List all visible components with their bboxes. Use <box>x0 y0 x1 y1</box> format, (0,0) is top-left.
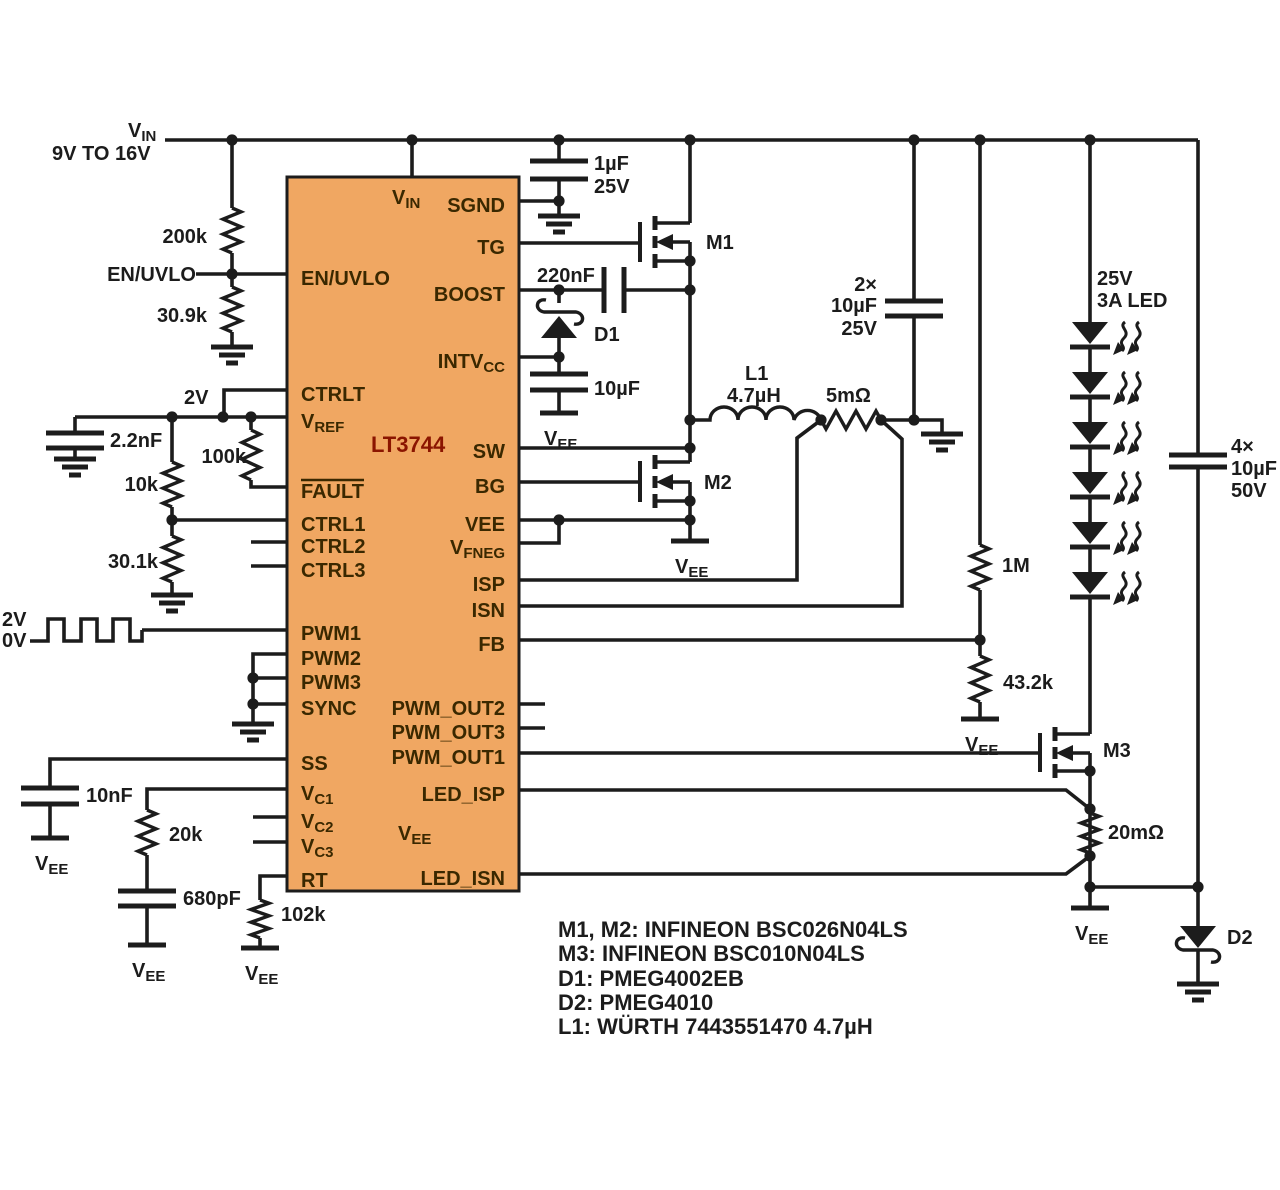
wire BOOST <box>519 288 604 292</box>
resistor 5mOhm sense <box>821 411 881 429</box>
pin label FB <box>478 634 505 656</box>
svg-text:D1: D1 <box>594 324 620 346</box>
op-amp U1 LT3744 body <box>287 177 519 891</box>
pin label VREF <box>301 411 344 436</box>
wire PWM3 <box>253 676 287 680</box>
svg-text:10k: 10k <box>125 474 159 496</box>
node VIN junction at LED string <box>1084 134 1095 145</box>
svg-text:25V: 25V <box>841 318 877 340</box>
label 20k <box>169 824 203 846</box>
svg-text:3A LED: 3A LED <box>1097 290 1167 312</box>
capacitor 2.2nF <box>46 433 104 448</box>
wire BOOST to D1 <box>557 290 561 303</box>
node VEE wire junction at M2 <box>684 514 695 525</box>
label LT3744 <box>371 432 446 457</box>
pin label BOOST <box>434 284 505 306</box>
svg-text:30.9k: 30.9k <box>157 305 208 327</box>
svg-text:220nF: 220nF <box>537 265 595 287</box>
svg-text:CTRL2: CTRL2 <box>301 536 365 558</box>
diode D1 schottky <box>537 300 582 338</box>
svg-text:1M: 1M <box>1002 555 1030 577</box>
svg-text:FAULT: FAULT <box>301 481 364 503</box>
pin label TG <box>477 237 505 259</box>
capacitor 220nF <box>604 267 624 313</box>
pin label LED_ISN <box>421 868 505 890</box>
svg-text:20k: 20k <box>169 824 203 846</box>
power VEE under 43.2k <box>961 719 999 759</box>
wire VIN to 200k <box>230 140 234 208</box>
pin label PWM1 <box>301 623 361 645</box>
node FB junction <box>974 634 985 645</box>
transistor Q M1 <box>640 216 690 268</box>
wire CTRL1 <box>172 518 287 522</box>
svg-text:PWM3: PWM3 <box>301 672 361 694</box>
note component list <box>558 917 908 1039</box>
wire LED1 to LED2 <box>1088 347 1092 372</box>
label 20mOhm <box>1108 822 1164 844</box>
pin label PWM_OUT2 <box>392 698 505 720</box>
wire to ground at 5mOhm <box>914 420 942 434</box>
wire VREF <box>75 415 287 419</box>
wire VC1 <box>147 789 287 810</box>
pin label PWM_OUT1 <box>392 747 505 769</box>
wire LED return to D2 <box>1090 885 1198 889</box>
svg-text:LT3744: LT3744 <box>371 432 446 457</box>
resistor 20mOhm <box>1081 813 1099 853</box>
label 10uF <box>594 378 640 400</box>
wire 10nF to VEE <box>48 804 52 838</box>
capacitor 680pF <box>118 891 176 906</box>
capacitor 10nF <box>21 788 79 804</box>
node VIN junction at M1 drain <box>684 134 695 145</box>
svg-text:ISP: ISP <box>473 574 505 596</box>
wire 30.1k to ground <box>170 582 174 595</box>
svg-text:M1: M1 <box>706 232 734 254</box>
svg-text:25V: 25V <box>594 176 630 198</box>
svg-text:SW: SW <box>473 441 505 463</box>
ground at 5mOhm <box>921 434 963 450</box>
wire INTVCC <box>519 355 559 359</box>
wire 200k to EN/UVLO node <box>230 253 234 274</box>
wire 10uF to VEE <box>557 390 561 413</box>
svg-text:D2: PMEG4010: D2: PMEG4010 <box>558 990 713 1015</box>
wire 10k to CTRL1 <box>170 507 174 536</box>
svg-text:100k: 100k <box>202 446 247 468</box>
wire RT <box>260 876 287 900</box>
node EN/UVLO junction <box>226 268 237 279</box>
resistor 10k <box>163 462 181 507</box>
svg-text:SYNC: SYNC <box>301 698 357 720</box>
wire VREF to 2.2nF <box>73 417 77 433</box>
svg-text:SS: SS <box>301 753 328 775</box>
svg-text:200k: 200k <box>163 226 208 248</box>
wire 100k to FAULT <box>251 480 287 487</box>
pin label SW <box>473 441 505 463</box>
capacitor 10uF <box>530 374 588 390</box>
label 100k <box>202 446 247 468</box>
svg-text:CTRL3: CTRL3 <box>301 560 365 582</box>
svg-text:VEE: VEE <box>465 514 505 536</box>
svg-text:102k: 102k <box>281 904 326 926</box>
wire SGND <box>519 199 559 203</box>
pin label BG <box>475 476 505 498</box>
label D1 <box>594 324 620 346</box>
pin label SYNC <box>301 698 357 720</box>
svg-text:M2: M2 <box>704 472 732 494</box>
wire M1 source down to SW node <box>688 261 692 462</box>
label EN/UVLO <box>107 264 196 286</box>
node 20mOhm top junction <box>1084 803 1095 814</box>
wire 2x10uF bottom <box>912 316 916 420</box>
resistor 43.2k <box>971 656 989 702</box>
wire VEE pin <box>519 518 690 522</box>
wire PWM_OUT1 to M3 gate <box>519 751 1040 755</box>
pin label SS <box>301 753 328 775</box>
node VIN junction at 200k <box>226 134 237 145</box>
svg-text:680pF: 680pF <box>183 888 241 910</box>
wire SW <box>519 446 690 450</box>
wire 220nF to M1 source <box>624 288 690 292</box>
pin label ISN <box>472 600 505 622</box>
pin label FAULT <box>301 480 364 503</box>
wire EN/UVLO to 30.9k <box>230 274 234 287</box>
svg-text:EN/UVLO: EN/UVLO <box>107 264 196 286</box>
label VIN supply <box>52 120 156 165</box>
ground at SGND <box>538 216 580 232</box>
node BOOST junction <box>553 284 564 295</box>
wire LED3 to LED4 <box>1088 447 1092 472</box>
svg-text:EN/UVLO: EN/UVLO <box>301 268 390 290</box>
node D2 junction <box>1192 881 1203 892</box>
wire M1 drain from rail <box>688 140 692 223</box>
LED D5 of string <box>1070 522 1140 555</box>
node CTRL1 junction <box>166 514 177 525</box>
wire FB <box>519 638 980 642</box>
label 25V 3A LED <box>1097 268 1167 312</box>
node SYNC junction <box>247 698 258 709</box>
node 2x10uF bottom junction <box>908 414 919 425</box>
label 2.2nF <box>110 430 162 452</box>
svg-text:M3: INFINEON BSC010N04LS: M3: INFINEON BSC010N04LS <box>558 941 865 966</box>
label 30.9k <box>157 305 208 327</box>
svg-text:M1, M2: INFINEON BSC026N04LS: M1, M2: INFINEON BSC026N04LS <box>558 917 908 942</box>
pin label ISP <box>473 574 505 596</box>
svg-text:CTRL1: CTRL1 <box>301 514 365 536</box>
resistor 200k <box>223 208 241 253</box>
pin label VC2 <box>301 811 334 836</box>
pin label INTVCC <box>438 351 505 376</box>
wire INTVCC to 10uF <box>557 357 561 374</box>
pin label PWM3 <box>301 672 361 694</box>
node VIN junction at IC VIN pin <box>406 134 417 145</box>
wire VREF to 10k <box>170 417 174 462</box>
wire D2 anode to ground <box>1196 950 1200 984</box>
svg-text:4.7µH: 4.7µH <box>727 385 781 407</box>
wire rail to LED string <box>1088 140 1092 322</box>
svg-text:CTRLT: CTRLT <box>301 384 365 406</box>
label 200k <box>163 226 208 248</box>
label 43.2k <box>1003 672 1054 694</box>
svg-text:PWM2: PWM2 <box>301 648 361 670</box>
svg-text:50V: 50V <box>1231 480 1267 502</box>
node 5mOhm left junction <box>815 414 826 425</box>
svg-text:2.2nF: 2.2nF <box>110 430 162 452</box>
wire LED5 to LED6 <box>1088 547 1092 572</box>
svg-text:L1: L1 <box>745 363 768 385</box>
label 5mOhm <box>826 385 871 407</box>
label 102k <box>281 904 326 926</box>
pin label CTRL2 <box>301 536 365 558</box>
svg-text:2V: 2V <box>184 387 209 409</box>
node M1 source junction <box>684 255 695 266</box>
transistor Q M3 <box>1040 727 1090 778</box>
svg-text:10µF: 10µF <box>594 378 640 400</box>
wire PWM1 <box>142 628 287 632</box>
label D2 <box>1227 927 1253 949</box>
ground under 2.2nF <box>54 459 96 475</box>
pin label CTRL3 <box>301 560 365 582</box>
label 2x 10uF 25V <box>831 274 878 340</box>
wire right rail upper segment <box>1196 140 1200 455</box>
wire 2.2nF to ground <box>73 448 77 459</box>
wire LED_ISN <box>519 856 1090 874</box>
svg-text:PWM_OUT1: PWM_OUT1 <box>392 747 505 769</box>
wire 102k to VEE <box>258 938 262 948</box>
capacitor 1uF 25V <box>530 161 588 179</box>
wire ISN <box>519 420 902 606</box>
wire D1 anode to INTVCC <box>557 338 561 357</box>
wire VREF to 100k <box>249 417 253 430</box>
wire SS <box>50 759 287 788</box>
label M3 <box>1103 740 1131 762</box>
svg-text:PWM_OUT3: PWM_OUT3 <box>392 722 505 744</box>
svg-text:PWM1: PWM1 <box>301 623 361 645</box>
pin label VC1 <box>301 783 334 808</box>
svg-text:2×: 2× <box>854 274 877 296</box>
power VEE under 10nF <box>31 838 69 878</box>
svg-text:2V: 2V <box>2 609 27 631</box>
label 10k <box>125 474 159 496</box>
svg-text:RT: RT <box>301 870 328 892</box>
node VIN junction at 2x10uF <box>908 134 919 145</box>
svg-text:M3: M3 <box>1103 740 1131 762</box>
resistor 20k <box>138 810 156 855</box>
node 5mOhm right junction <box>875 414 886 425</box>
wire VC2 stub <box>253 815 287 819</box>
resistor 1M <box>971 545 989 590</box>
wire VIN top rail <box>165 138 1198 142</box>
label M2 <box>704 472 732 494</box>
resistor 100k <box>242 430 260 480</box>
svg-text:4×: 4× <box>1231 436 1254 458</box>
ground under 30.1k <box>151 595 193 611</box>
power VEE under 20mOhm <box>1071 908 1109 948</box>
svg-text:20mΩ: 20mΩ <box>1108 822 1164 844</box>
LED D4 of string <box>1070 472 1140 505</box>
node L1 junction <box>684 414 695 425</box>
wire SGND to ground <box>557 201 561 216</box>
svg-text:9V TO 16V: 9V TO 16V <box>52 143 151 165</box>
wire M3 source down <box>1088 771 1092 908</box>
wire TG to M1 gate <box>519 241 640 245</box>
power VEE under 680pF <box>128 945 166 985</box>
transistor Q M2 <box>640 455 690 508</box>
wire BG to M2 gate <box>519 480 640 484</box>
wire M2 source down <box>688 501 692 541</box>
label 10nF <box>86 785 133 807</box>
label 1M <box>1002 555 1030 577</box>
node SGND junction <box>553 195 564 206</box>
LED D3 of string <box>1070 422 1140 455</box>
pin label LED_ISP <box>422 784 505 806</box>
wire EN/UVLO <box>196 272 287 276</box>
node VIN junction at 1uF <box>553 134 564 145</box>
pin label VIN <box>392 187 420 212</box>
pin label SGND <box>447 195 505 217</box>
svg-text:10µF: 10µF <box>831 295 877 317</box>
power VEE under M2 <box>671 541 709 581</box>
pin label VEE pin <box>465 514 505 536</box>
PWM square wave <box>30 619 142 641</box>
pin label CTRL1 <box>301 514 365 536</box>
pin label VEE internal <box>398 823 431 848</box>
wire 43.2k to VEE <box>978 702 982 719</box>
node M3 source junction <box>1084 765 1095 776</box>
pin label VC3 <box>301 836 334 861</box>
label 30.1k <box>108 551 159 573</box>
svg-text:10µF: 10µF <box>1231 458 1277 480</box>
pin label PWM_OUT3 <box>392 722 505 744</box>
svg-text:ISN: ISN <box>472 600 505 622</box>
svg-text:SGND: SGND <box>447 195 505 217</box>
svg-text:TG: TG <box>477 237 505 259</box>
node INTVCC junction <box>553 351 564 362</box>
node LED return junction <box>1084 881 1095 892</box>
wire LED_ISP <box>519 790 1090 809</box>
wire IC VIN pin <box>410 140 414 177</box>
wire rail to 1M <box>978 140 982 545</box>
wire right rail lower segment <box>1196 467 1200 887</box>
svg-text:FB: FB <box>478 634 505 656</box>
svg-text:L1: WÜRTH 7443551470 4.7µH: L1: WÜRTH 7443551470 4.7µH <box>558 1014 873 1039</box>
pin label PWM2 <box>301 648 361 670</box>
svg-text:BG: BG <box>475 476 505 498</box>
label L1 <box>727 363 781 407</box>
wire PWM2 <box>253 654 287 724</box>
svg-text:1µF: 1µF <box>594 153 629 175</box>
pin label RT <box>301 870 328 892</box>
wire 1uF bottom to SGND node <box>557 179 561 201</box>
svg-text:BOOST: BOOST <box>434 284 505 306</box>
label 4x 10uF 50V <box>1231 436 1277 502</box>
resistor 30.1k <box>163 536 181 582</box>
wire PWM_OUT3 stub <box>519 726 545 730</box>
wire D2 cathode <box>1196 887 1200 926</box>
capacitor 2x 10uF 25V <box>885 301 943 316</box>
wire 5mOhm to cap node <box>881 418 914 422</box>
node VEE VFNEG junction <box>553 514 564 525</box>
power VEE under 102k <box>241 948 279 988</box>
wire CTRL3 stub <box>251 564 287 568</box>
wire 20k to 680pF <box>145 855 149 891</box>
label 1uF 25V <box>594 153 630 198</box>
ground under D2 <box>1177 984 1219 1000</box>
diode D2 schottky <box>1176 926 1219 962</box>
svg-text:10nF: 10nF <box>86 785 133 807</box>
wire 1M to FB node <box>978 590 982 656</box>
power VEE under 10uF <box>540 413 578 453</box>
node VREF junction at 10k <box>166 411 177 422</box>
svg-text:0V: 0V <box>2 630 27 652</box>
wire CTRL2 stub <box>251 540 287 544</box>
wire VFNEG <box>519 520 559 543</box>
LED D2 of string <box>1070 372 1140 405</box>
pin label CTRLT <box>301 384 365 406</box>
label M1 <box>706 232 734 254</box>
svg-text:25V: 25V <box>1097 268 1133 290</box>
wire VC3 stub <box>253 840 287 844</box>
inductor L1 4.7uH <box>690 407 821 420</box>
capacitor 4x 10uF 50V <box>1169 455 1227 467</box>
svg-text:30.1k: 30.1k <box>108 551 159 573</box>
node VREF junction at CTRLT <box>217 411 228 422</box>
node VREF junction at 100k <box>245 411 256 422</box>
node PWM3 junction <box>247 672 258 683</box>
wire CTRLT <box>224 390 287 417</box>
wire PWM_OUT2 stub <box>519 702 545 706</box>
svg-text:D2: D2 <box>1227 927 1253 949</box>
wire 30.9k to ground <box>230 332 234 347</box>
wire LED4 to LED5 <box>1088 497 1092 522</box>
wire LED string to M3 drain <box>1088 597 1092 734</box>
LED D1 of string <box>1070 322 1140 355</box>
svg-text:PWM_OUT2: PWM_OUT2 <box>392 698 505 720</box>
pin label VFNEG <box>450 537 505 562</box>
resistor 30.9k <box>223 287 241 332</box>
svg-text:LED_ISP: LED_ISP <box>422 784 505 806</box>
svg-text:5mΩ: 5mΩ <box>826 385 871 407</box>
node SW junction <box>684 442 695 453</box>
node 220nF M1 junction <box>684 284 695 295</box>
wire SYNC <box>253 702 287 706</box>
LED D6 of string <box>1070 572 1140 605</box>
svg-text:D1: PMEG4002EB: D1: PMEG4002EB <box>558 966 744 991</box>
node 20mOhm bottom junction <box>1084 850 1095 861</box>
ground under SYNC <box>232 724 274 740</box>
resistor 102k <box>251 900 269 938</box>
node M2 source junction <box>684 495 695 506</box>
wire ISP <box>519 420 821 580</box>
wire 1uF top <box>557 140 561 161</box>
node VIN junction at 1M <box>974 134 985 145</box>
pin label EN/UVLO <box>301 268 390 290</box>
wire LED2 to LED3 <box>1088 397 1092 422</box>
label 680pF <box>183 888 241 910</box>
svg-text:LED_ISN: LED_ISN <box>421 868 505 890</box>
wire 2x10uF top <box>912 140 916 301</box>
label 2V 0V PWM <box>2 609 27 652</box>
svg-text:43.2k: 43.2k <box>1003 672 1054 694</box>
label 220nF <box>537 265 595 287</box>
wire 680pF to VEE <box>145 906 149 945</box>
ground under 30.9k <box>211 347 253 363</box>
label 2V at CTRLT <box>184 387 209 409</box>
